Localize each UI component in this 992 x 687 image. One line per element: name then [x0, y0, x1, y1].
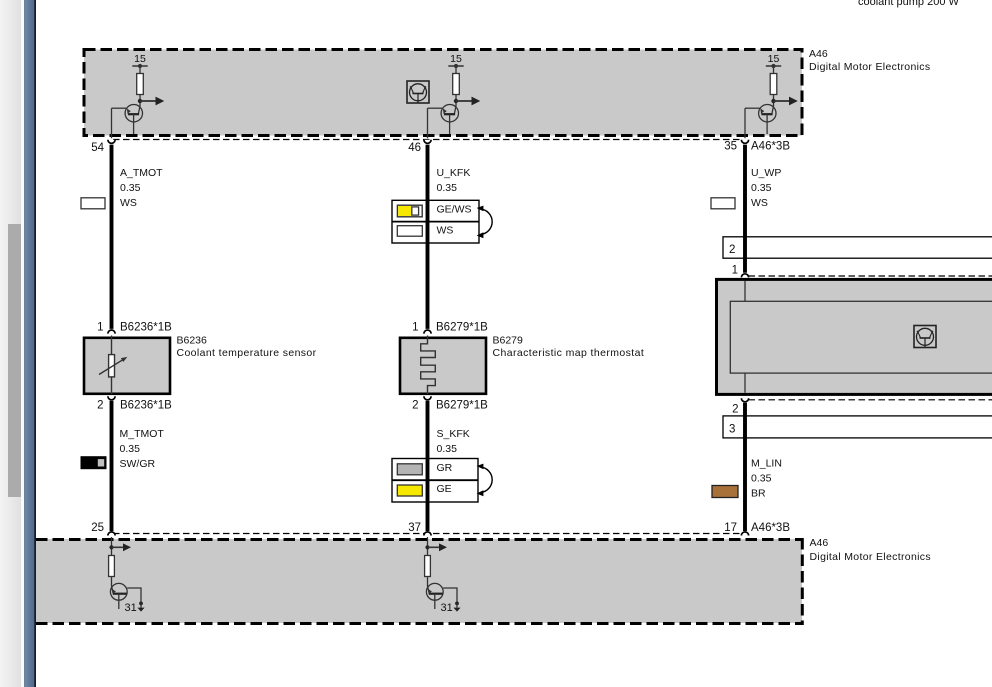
low-side stage pin 37 — [425, 537, 461, 612]
svg-text:2: 2 — [97, 400, 103, 412]
svg-text:A46: A46 — [810, 537, 829, 549]
svg-text:Digital Motor Electronics: Digital Motor Electronics — [810, 551, 931, 563]
coolant pump M-unit box — [717, 279, 992, 394]
svg-text:1: 1 — [412, 322, 418, 334]
wire U_KFK pin46 to B6279 — [426, 145, 430, 329]
driver stage U3 (pin 35) — [745, 64, 798, 138]
svg-text:37: 37 — [408, 522, 421, 534]
svg-text:GE/WS: GE/WS — [437, 204, 472, 216]
light strip — [21, 0, 24, 687]
svg-text:17: 17 — [724, 522, 737, 534]
svg-text:A46*3B: A46*3B — [751, 522, 790, 534]
B6236 pin2 cup — [108, 396, 115, 400]
B6279 heater element — [421, 336, 436, 395]
svg-text:WS: WS — [437, 225, 454, 237]
colour swatch WS right — [711, 198, 735, 209]
svg-text:Characteristic map thermostat: Characteristic map thermostat — [493, 347, 645, 359]
pump internal wires — [744, 281, 746, 393]
B6236 pin1 cup — [108, 330, 115, 334]
svg-text:M_LIN: M_LIN — [751, 458, 782, 470]
sidebar track — [0, 0, 22, 687]
svg-text:31: 31 — [441, 602, 453, 614]
svg-text:0.35: 0.35 — [437, 182, 458, 194]
alternative-colour arc — [481, 209, 493, 235]
pin 54 cup — [108, 140, 115, 144]
svg-text:2: 2 — [412, 400, 418, 412]
svg-text:M_TMOT: M_TMOT — [120, 428, 165, 440]
wire colour table GE/WS|WS — [392, 200, 479, 243]
pump connector dashed lines — [749, 275, 992, 277]
svg-text:GR: GR — [437, 462, 453, 474]
pump pin1 cup — [741, 274, 748, 278]
inline reference band 3 — [723, 416, 992, 438]
B6236 thermistor — [109, 355, 115, 377]
driver stage U2 (pin 46) — [428, 64, 481, 138]
svg-text:GE: GE — [437, 483, 452, 495]
colour swatch WS — [397, 226, 422, 237]
svg-text:15: 15 — [450, 53, 462, 65]
connector A46*3B top dashed line — [113, 139, 741, 141]
wire U_WP pin35 to pump — [743, 145, 747, 273]
svg-text:WS: WS — [751, 197, 768, 209]
svg-text:B6236*1B: B6236*1B — [120, 400, 172, 412]
driver stage U1 (pin 54) — [112, 64, 165, 138]
svg-text:S_KFK: S_KFK — [437, 428, 470, 440]
B6279 pin1 cup — [424, 330, 431, 334]
svg-text:A_TMOT: A_TMOT — [120, 167, 163, 179]
svg-text:1: 1 — [732, 265, 738, 277]
pin 35 cup — [741, 140, 748, 144]
svg-text:SW/GR: SW/GR — [120, 458, 156, 470]
pin 46 cup — [424, 140, 431, 144]
svg-text:54: 54 — [91, 142, 104, 154]
alternative-colour arc — [481, 467, 493, 493]
svg-text:B6236: B6236 — [177, 335, 208, 347]
pump motor symbol — [914, 326, 936, 348]
svg-text:35: 35 — [724, 141, 737, 153]
svg-text:15: 15 — [768, 53, 780, 65]
svg-text:2: 2 — [729, 244, 735, 256]
svg-text:B6279*1B: B6279*1B — [436, 400, 488, 412]
colour swatch SW/GR — [81, 457, 106, 469]
pump pin2 cup — [741, 398, 748, 402]
colour swatch WS — [81, 198, 105, 209]
colour swatch GE — [397, 485, 422, 496]
svg-text:0.35: 0.35 — [120, 182, 141, 194]
pump inner module — [730, 301, 992, 373]
wire S_KFK B6279 to pin37 — [426, 401, 430, 531]
svg-text:25: 25 — [91, 522, 104, 534]
pump logic symbol in ECU — [407, 81, 429, 103]
svg-text:B6279: B6279 — [493, 335, 524, 347]
low-side stage pin 25 — [109, 537, 145, 612]
pin 37 cup — [424, 532, 431, 536]
svg-text:BR: BR — [751, 488, 766, 500]
B6236 coolant temperature sensor box — [84, 338, 170, 394]
svg-text:Digital Motor Electronics: Digital Motor Electronics — [809, 61, 930, 73]
svg-text:15: 15 — [134, 53, 146, 65]
svg-text:A46*3B: A46*3B — [751, 141, 790, 153]
B6236 internal wire — [111, 336, 113, 395]
svg-text:B6279*1B: B6279*1B — [436, 322, 488, 334]
svg-text:31: 31 — [125, 602, 137, 614]
svg-text:0.35: 0.35 — [751, 473, 772, 485]
wire M_TMOT B6236 to pin25 — [110, 401, 114, 531]
svg-text:B6236*1B: B6236*1B — [120, 322, 172, 334]
colour swatch GE/WS — [397, 205, 422, 217]
svg-text:Coolant temperature sensor: Coolant temperature sensor — [177, 347, 317, 359]
svg-text:0.35: 0.35 — [437, 443, 458, 455]
svg-text:1: 1 — [97, 322, 103, 334]
svg-text:coolant pump 200 W: coolant pump 200 W — [858, 0, 960, 8]
scrollbar thumb — [8, 224, 21, 497]
svg-text:U_KFK: U_KFK — [437, 167, 471, 179]
B6279 pin2 cup — [424, 396, 431, 400]
svg-text:3: 3 — [729, 424, 735, 436]
svg-text:WS: WS — [120, 197, 137, 209]
inline reference band 2 — [723, 237, 992, 258]
pin 25 cup — [108, 532, 115, 536]
wire colour table GR|GE — [392, 459, 478, 503]
svg-text:0.35: 0.35 — [120, 443, 141, 455]
ECU A46 top box — [84, 50, 802, 136]
B6279 characteristic map thermostat box — [400, 338, 486, 394]
svg-text:A46: A46 — [809, 48, 828, 60]
ECU A46 bottom box fill — [36, 539, 802, 623]
svg-text:0.35: 0.35 — [751, 182, 772, 194]
colour swatch GR — [397, 464, 422, 475]
ECU A46 bottom box dashed border — [36, 538, 804, 541]
connector A46*3B bottom dashed line — [113, 533, 741, 535]
wire M_LIN pump to pin17 — [743, 403, 747, 531]
wire A_TMOT pin54 to B6236 — [110, 145, 114, 329]
pin 17 cup — [741, 532, 748, 536]
svg-text:2: 2 — [732, 404, 738, 416]
colour swatch BR — [712, 486, 738, 498]
window edge blue bar — [24, 0, 36, 687]
svg-text:U_WP: U_WP — [751, 167, 781, 179]
svg-text:46: 46 — [408, 142, 421, 154]
